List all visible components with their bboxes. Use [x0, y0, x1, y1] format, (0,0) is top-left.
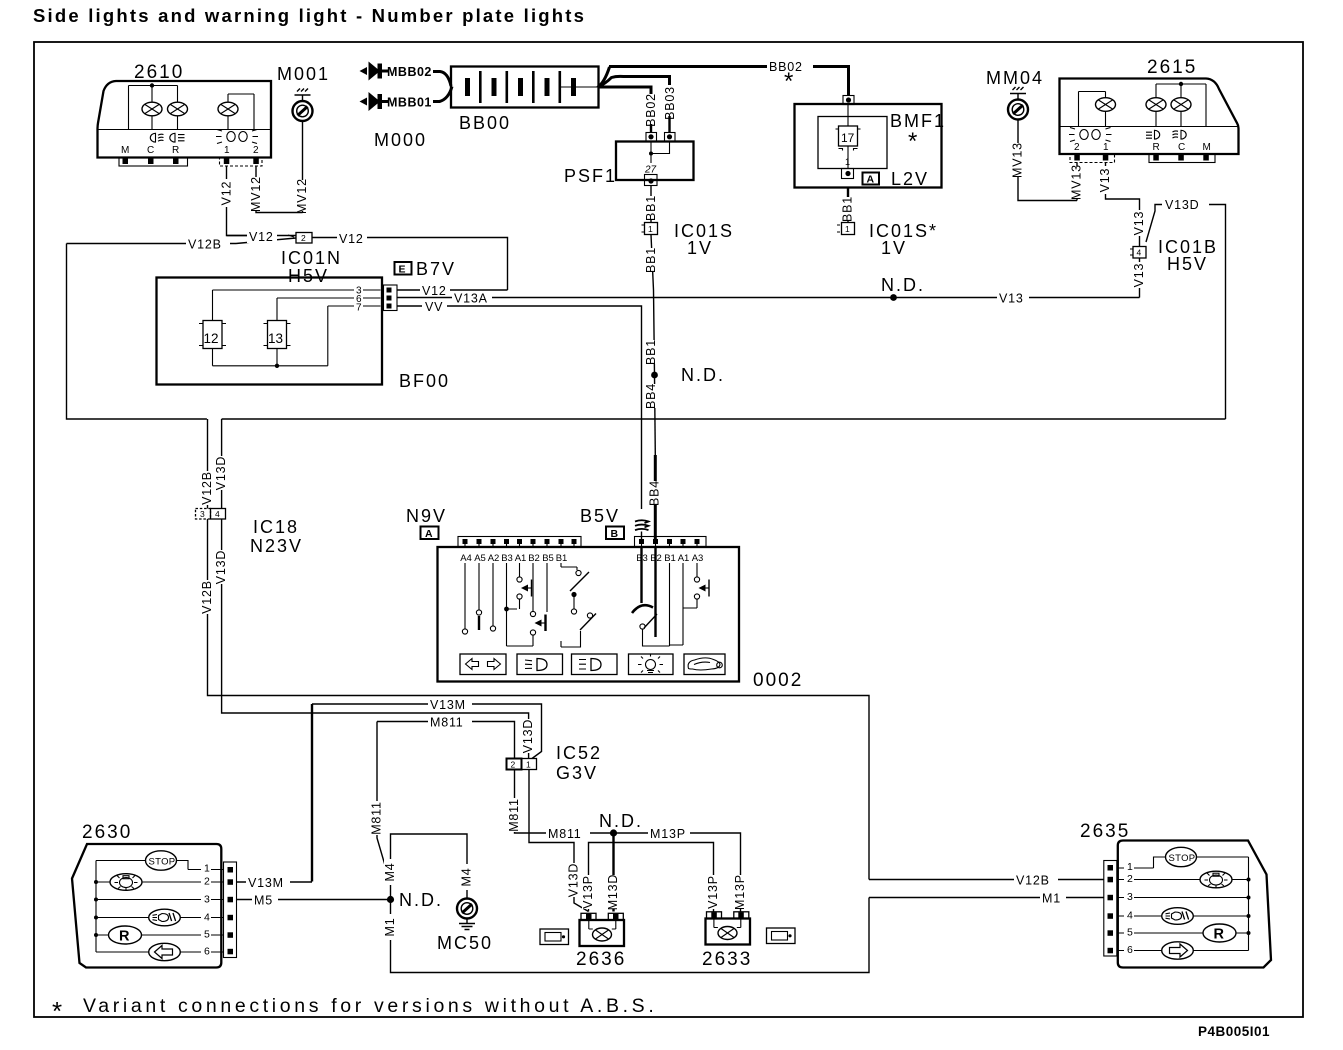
svg-text:V12B: V12B	[188, 238, 222, 252]
svg-text:V13: V13	[1132, 263, 1146, 288]
svg-text:B1: B1	[664, 553, 676, 564]
splice symbol on VV wire	[635, 520, 649, 530]
BMF1 fuse 17	[847, 105, 849, 127]
2630 body	[72, 844, 221, 968]
svg-text:N23V: N23V	[250, 536, 303, 556]
2636 pin boxes	[581, 913, 596, 920]
2615 connector strip 2 1	[1070, 154, 1115, 163]
svg-text:M1: M1	[1042, 892, 1061, 906]
svg-text:N.D.: N.D.	[681, 365, 725, 385]
svg-text:B1: B1	[556, 553, 568, 564]
svg-text:MM04: MM04	[986, 68, 1044, 88]
0002 interior switch A1	[519, 563, 521, 609]
icon box headlight	[572, 654, 618, 675]
svg-text:C: C	[147, 145, 154, 156]
wire MV13 from MM04	[1018, 120, 1077, 201]
svg-text:MV12: MV12	[295, 178, 309, 214]
svg-text:V13P: V13P	[581, 875, 595, 909]
2630 turn indicator	[149, 943, 181, 960]
2635 connector strip	[1104, 861, 1117, 957]
wire M811 horizontal	[377, 722, 515, 759]
svg-text:12: 12	[204, 331, 219, 346]
lamp L3 of 2610	[218, 102, 238, 116]
svg-text:0002: 0002	[753, 670, 803, 691]
boxed letter E	[395, 262, 412, 275]
svg-text:M001: M001	[277, 64, 330, 84]
0002 interior column A1b	[670, 563, 698, 645]
svg-text:STOP: STOP	[1169, 853, 1196, 864]
wire V13D long bus	[222, 419, 1226, 509]
svg-text:2630: 2630	[82, 822, 132, 843]
PSF1 pin BB02	[646, 133, 657, 142]
wire V12 from BF00 pin 3	[397, 289, 508, 291]
svg-text:C: C	[1178, 142, 1185, 153]
number plate light 2633 body	[706, 919, 751, 945]
svg-text:B5V: B5V	[580, 506, 620, 526]
2633 pin boxes	[707, 912, 722, 919]
2630 pin numbers	[201, 862, 211, 958]
2633 lamp	[714, 919, 741, 928]
2615 connector strip R C M	[1149, 154, 1215, 163]
svg-text:M000: M000	[374, 130, 427, 150]
svg-text:V13: V13	[1098, 168, 1112, 193]
svg-text:M13D: M13D	[606, 874, 620, 911]
junction N.D. on BB1/BB4	[651, 372, 658, 379]
svg-text:N9V: N9V	[406, 506, 447, 526]
battery connection M000 arrows MBB01	[360, 98, 368, 106]
svg-text:IC01N: IC01N	[281, 248, 342, 268]
svg-text:M13P: M13P	[733, 874, 747, 910]
wire V13D below IC18	[222, 519, 529, 759]
svg-text:Side lights and warning light: Side lights and warning light - Number p…	[33, 5, 586, 26]
svg-text:M5: M5	[254, 894, 273, 908]
svg-text:BB1: BB1	[644, 339, 658, 365]
wire M1 into 2635 pin 3	[869, 897, 1104, 899]
svg-text:PSF1: PSF1	[564, 166, 617, 186]
2610 inner divider line	[98, 129, 271, 131]
wire V12B below IC18	[208, 519, 870, 880]
svg-text:R: R	[1153, 142, 1160, 153]
2635 internal wiring	[1118, 857, 1249, 951]
2630 connector strip	[224, 862, 237, 958]
BF00 pin labels 3 6 7	[354, 285, 363, 297]
2630 side light indicator	[110, 874, 142, 891]
svg-text:3: 3	[1127, 891, 1133, 903]
svg-text:A3: A3	[692, 553, 704, 564]
svg-text:MV12: MV12	[249, 176, 263, 212]
svg-text:*: *	[908, 128, 917, 155]
ground point MC50	[457, 899, 477, 919]
svg-text:B7V: B7V	[416, 259, 456, 279]
svg-text:M: M	[121, 145, 129, 156]
2635 R indicator	[1203, 924, 1236, 942]
svg-text:B2: B2	[528, 553, 540, 564]
svg-text:VV: VV	[425, 300, 443, 314]
svg-text:N.D.: N.D.	[881, 275, 925, 295]
lamp L3 of 2615	[1171, 98, 1191, 112]
svg-text:*: *	[52, 996, 62, 1026]
svg-text:2: 2	[1074, 142, 1080, 153]
svg-text:5: 5	[1127, 927, 1133, 939]
svg-text:MBB02: MBB02	[387, 65, 432, 79]
svg-text:BF00: BF00	[399, 371, 450, 391]
0002 interior column B2b	[654, 548, 656, 637]
BMF1 bottom pin	[842, 169, 854, 179]
2635 STOP indicator	[1166, 847, 1197, 866]
svg-text:4: 4	[215, 509, 220, 519]
svg-text:MV13: MV13	[1010, 142, 1024, 178]
battery connection M000 arrows MBB02	[360, 67, 368, 75]
BMF1 body	[795, 104, 942, 188]
0002 interior switch B1	[561, 563, 577, 570]
svg-text:*: *	[784, 68, 793, 95]
2610 headlight icons	[150, 133, 184, 142]
svg-text:17: 17	[841, 131, 855, 145]
0002 interior switch B2	[532, 563, 534, 646]
svg-text:V13M: V13M	[430, 698, 466, 712]
svg-text:7: 7	[356, 303, 362, 314]
svg-text:V13M: V13M	[248, 876, 284, 890]
svg-text:V12: V12	[422, 284, 447, 298]
BF00 output connector	[384, 285, 398, 311]
junction N.D. at MC50	[387, 896, 394, 903]
2635 body	[1118, 841, 1271, 968]
svg-text:3: 3	[200, 509, 205, 519]
svg-text:1: 1	[1103, 142, 1109, 153]
svg-text:6: 6	[1127, 944, 1133, 956]
svg-text:L2V: L2V	[891, 169, 929, 189]
0002 interior column B1b	[669, 563, 671, 646]
wire M811 down to junction	[377, 722, 391, 885]
svg-text:BB1: BB1	[644, 195, 658, 221]
svg-text:IC18: IC18	[253, 517, 299, 537]
headlamp unit 2615 body	[1060, 79, 1239, 155]
fuse 13	[268, 321, 287, 349]
wire BB1 below IC01S	[651, 235, 655, 375]
thick branch BB03	[598, 76, 670, 87]
2615 inner divider line	[1060, 126, 1239, 128]
2610 connector strip 1 2	[220, 158, 263, 167]
wire M5 from 2630 pin 3	[237, 899, 391, 901]
svg-text:BB1: BB1	[644, 247, 658, 273]
svg-text:BB03: BB03	[663, 86, 677, 120]
svg-text:R: R	[1214, 927, 1225, 943]
svg-text:A1: A1	[678, 553, 690, 564]
svg-text:2615: 2615	[1147, 57, 1197, 78]
svg-text:M13P: M13P	[650, 827, 686, 841]
svg-text:1: 1	[648, 224, 653, 234]
0002 interior column B3	[507, 563, 534, 646]
connector A pin labels	[460, 553, 567, 564]
icon box low beam	[517, 654, 563, 675]
0002 interior column A5	[478, 563, 480, 610]
wire M13P	[614, 833, 741, 912]
svg-text:2636: 2636	[576, 949, 626, 970]
svg-text:2: 2	[301, 233, 306, 243]
svg-text:BMF1: BMF1	[890, 111, 946, 131]
wire MV12 from 2610 pin 2	[256, 166, 303, 213]
wire V12B into 2635 pin 2	[869, 879, 1104, 881]
svg-text:MBB01: MBB01	[387, 96, 432, 110]
svg-text:3: 3	[204, 894, 210, 906]
svg-text:V13: V13	[999, 292, 1024, 306]
svg-text:G3V: G3V	[556, 763, 598, 783]
thick feed BB02 top wire	[598, 67, 768, 88]
junction dot in 2615	[1179, 82, 1183, 86]
svg-text:4: 4	[204, 912, 210, 924]
svg-text:BB1: BB1	[840, 196, 854, 222]
inline connector IC01S*	[842, 223, 855, 235]
wire V13A from BF00 pin 6	[397, 297, 1140, 299]
svg-text:B: B	[611, 528, 619, 540]
svg-text:V13: V13	[1132, 211, 1146, 236]
svg-text:M4: M4	[383, 863, 397, 882]
svg-text:M811: M811	[507, 798, 521, 832]
wire M13D from junction	[612, 836, 614, 912]
BMF1 inner module box	[818, 117, 887, 169]
svg-text:2635: 2635	[1080, 821, 1130, 842]
svg-text:V12: V12	[249, 230, 274, 244]
headlamp unit 2610 body	[98, 81, 272, 158]
thick branch BB02 to PSF1	[598, 87, 651, 94]
svg-text:V13D: V13D	[521, 719, 535, 753]
svg-text:27: 27	[644, 165, 657, 176]
svg-text:V13A: V13A	[454, 292, 488, 306]
svg-text:H5V: H5V	[288, 266, 329, 286]
wire V13D below IC52	[529, 770, 589, 912]
2615 internal wires	[1079, 84, 1207, 127]
number plate light 2636 body	[580, 920, 625, 946]
PSF1 body	[616, 142, 694, 181]
lamp L1 of 2615	[1096, 98, 1116, 112]
0002 interior column B5	[546, 563, 548, 612]
svg-text:4: 4	[1127, 910, 1133, 922]
battery BB00 output wire	[561, 86, 599, 88]
svg-text:V13D: V13D	[1165, 198, 1199, 212]
battery BB00 body	[451, 67, 599, 108]
wire V12B left loop	[67, 244, 207, 420]
2610 connector strip MCR	[119, 158, 188, 167]
wire V13M to 2630 pin 2	[237, 881, 313, 883]
svg-text:IC52: IC52	[556, 743, 602, 763]
inline connector IC18 pins 3 4	[196, 509, 211, 520]
2630 STOP indicator	[146, 851, 177, 870]
wire MV13 from 2615 pin 2	[1076, 163, 1078, 201]
inline connector IC01B pin 4	[1133, 247, 1146, 259]
boxed letter B	[606, 527, 624, 540]
svg-text:V13P: V13P	[706, 875, 720, 909]
svg-text:H5V: H5V	[1167, 254, 1208, 274]
0002 interior column A4	[464, 563, 466, 629]
inline connector IC01N pin 2	[296, 233, 312, 244]
wire V12 from 2610 pin 1	[227, 166, 249, 236]
svg-text:A: A	[867, 174, 875, 186]
svg-text:BB00: BB00	[459, 113, 511, 133]
svg-text:V12: V12	[219, 181, 233, 206]
wire M1 from junction	[391, 898, 870, 973]
svg-text:V13D: V13D	[214, 456, 228, 490]
svg-text:1V: 1V	[881, 238, 907, 258]
svg-text:2: 2	[511, 760, 516, 770]
icon box turn signals	[460, 654, 506, 675]
svg-text:1: 1	[845, 224, 850, 234]
svg-text:M4: M4	[459, 868, 473, 887]
svg-text:A2: A2	[488, 553, 500, 564]
2615 side light icon	[1069, 128, 1112, 142]
svg-text:B5: B5	[542, 553, 554, 564]
boxed letter A	[863, 173, 880, 185]
number plate icon left	[540, 929, 569, 945]
0002 interior column A2	[492, 563, 494, 626]
wire BB4 down to 0002	[654, 375, 657, 455]
boxed letter A	[421, 527, 439, 540]
svg-text:M811: M811	[369, 801, 383, 835]
2630 R indicator	[109, 926, 142, 944]
svg-text:V12B: V12B	[1016, 874, 1050, 888]
2630 fog indicator	[149, 909, 181, 926]
svg-text:A4: A4	[460, 553, 472, 564]
PSF1 internal wires	[651, 142, 670, 164]
svg-text:1: 1	[526, 760, 531, 770]
svg-text:V12: V12	[339, 232, 364, 246]
svg-text:5: 5	[204, 929, 210, 941]
svg-text:1: 1	[1127, 861, 1133, 873]
svg-text:13: 13	[268, 331, 283, 346]
connector A strip	[458, 537, 581, 547]
svg-text:Variant connections for versio: Variant connections for versions without…	[83, 995, 657, 1017]
svg-text:MV13: MV13	[1069, 164, 1083, 200]
svg-text:V12B: V12B	[200, 580, 214, 614]
icon box lamp	[629, 654, 674, 675]
svg-text:E: E	[399, 264, 406, 276]
svg-text:2: 2	[253, 145, 259, 156]
wire M811 below IC52	[515, 770, 614, 834]
svg-text:4: 4	[1137, 248, 1142, 258]
wire V13P bus	[589, 843, 714, 912]
svg-text:M1: M1	[383, 918, 397, 937]
2610 side light icon	[216, 130, 258, 144]
junction N.D. on V13A	[890, 294, 897, 301]
svg-text:V12B: V12B	[200, 471, 214, 505]
label V13 on V13A wire	[997, 291, 1029, 306]
switch unit 0002 body	[438, 547, 740, 682]
svg-text:MC50: MC50	[437, 933, 493, 953]
svg-text:M811: M811	[430, 716, 464, 730]
svg-text:N.D.: N.D.	[599, 811, 643, 831]
svg-text:B3: B3	[501, 553, 513, 564]
svg-text:R: R	[119, 929, 130, 945]
branch V13D from IC01B	[1146, 205, 1226, 420]
2635 turn indicator	[1162, 942, 1194, 959]
wire MBB02 to BB00	[433, 72, 451, 87]
svg-text:R: R	[172, 145, 179, 156]
wire V13M horizontal	[311, 704, 313, 882]
connector B strip	[635, 537, 707, 547]
2630 internal wiring	[96, 861, 224, 953]
BF00 internal wires	[213, 290, 381, 366]
svg-text:BB02: BB02	[644, 93, 658, 127]
wire MBB01 to BB00	[433, 87, 452, 102]
svg-text:A5: A5	[474, 553, 486, 564]
battery BB00 plates	[465, 71, 576, 103]
svg-text:P4B005I01: P4B005I01	[1198, 1024, 1270, 1039]
fuse box BF00 body	[157, 278, 383, 385]
svg-text:BB4: BB4	[648, 480, 662, 506]
wire V12B horizontal at IC01N	[67, 243, 237, 245]
2636 lamp	[589, 920, 616, 929]
wire BB1 from PSF1	[650, 185, 652, 223]
svg-text:V13D: V13D	[214, 550, 228, 584]
number plate icon right	[767, 928, 796, 944]
svg-text:2: 2	[204, 876, 210, 888]
wire V13 from 2615 pin 1	[1106, 163, 1140, 247]
connector B pin labels	[636, 553, 703, 564]
fuse 12	[203, 321, 222, 349]
PSF1 bottom pin	[645, 175, 658, 186]
wire BB1 from BMF1	[847, 188, 849, 199]
lamp L2 of 2615	[1146, 98, 1166, 112]
inline connector IC01S	[645, 223, 658, 235]
thick BB02 wire to BMF1	[813, 67, 849, 97]
2615 headlight icons	[1146, 130, 1186, 139]
inline connector IC52 pins 2 1	[507, 759, 522, 770]
svg-text:A1: A1	[515, 553, 527, 564]
2635 side light indicator	[1200, 871, 1232, 888]
2635 fog indicator	[1162, 908, 1194, 925]
svg-text:1V: 1V	[687, 238, 713, 258]
wire V13 below IC01B	[1139, 258, 1141, 298]
lamp L2 of 2610	[168, 102, 188, 116]
icon box horn	[684, 654, 725, 675]
2610 internal wires	[129, 86, 255, 130]
svg-text:2: 2	[1127, 873, 1133, 885]
diagonal V12B to connector IC01N	[236, 238, 296, 244]
svg-text:1: 1	[204, 863, 210, 875]
lamp L1 of 2610	[142, 102, 162, 116]
wire VV from BF00 pin 7	[397, 306, 642, 540]
wire V12B down to IC18	[207, 419, 209, 509]
svg-text:N.D.: N.D.	[399, 890, 443, 910]
svg-text:A: A	[425, 528, 433, 540]
svg-text:BB4: BB4	[644, 383, 658, 409]
0002 interior column B3b	[640, 548, 642, 603]
svg-text:M: M	[1203, 142, 1211, 153]
0002 interior switch A3b	[696, 563, 698, 608]
junction dot in 2610	[150, 83, 154, 87]
svg-text:STOP: STOP	[149, 857, 176, 868]
wire V12 IC01N row	[227, 236, 508, 291]
junction N.D. near 2636	[610, 829, 617, 836]
2635 pin numbers	[1124, 861, 1134, 957]
svg-text:V13D: V13D	[566, 863, 580, 897]
svg-text:2633: 2633	[702, 949, 752, 970]
PSF1 pin BB03	[665, 133, 676, 142]
svg-text:1: 1	[224, 145, 230, 156]
svg-text:6: 6	[204, 946, 210, 958]
relay unit BMF1 top pin	[843, 96, 854, 105]
wire M4 loop to MC50	[391, 834, 468, 900]
svg-text:M811: M811	[548, 827, 582, 841]
